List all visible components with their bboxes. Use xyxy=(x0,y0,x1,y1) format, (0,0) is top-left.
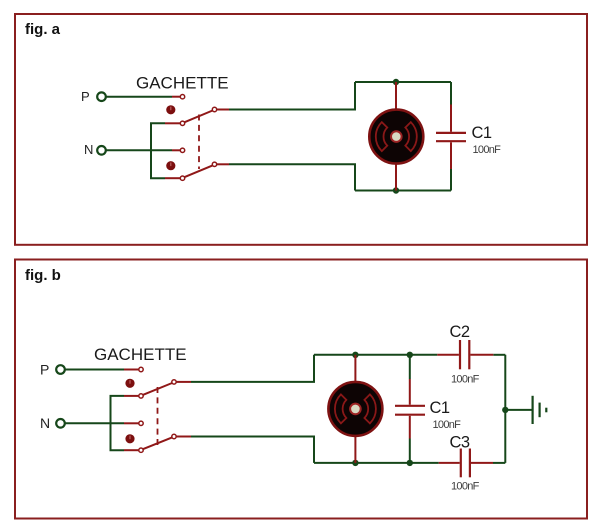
svg-text:GACHETTE: GACHETTE xyxy=(136,74,229,93)
switch top pole (fig. a) xyxy=(180,107,216,125)
svg-text:P: P xyxy=(40,361,49,377)
svg-text:100nF: 100nF xyxy=(451,480,480,492)
wire N to switch pin (fig. a) xyxy=(107,149,173,151)
terminal P (fig. b) xyxy=(56,365,65,374)
switch pin N common (fig. b) xyxy=(124,421,143,425)
wire bottom rail (fig. a) xyxy=(355,190,451,192)
frame fig. a xyxy=(15,14,587,245)
svg-text:N: N xyxy=(40,415,50,431)
junction bottom right (fig. b) xyxy=(407,460,413,466)
motor M1 (fig. b) xyxy=(328,355,382,463)
svg-text:C3: C3 xyxy=(450,434,470,452)
wire bracket joining poles (fig. a) xyxy=(151,123,165,178)
terminal P (fig. a) xyxy=(97,92,106,101)
switch left pins (fig. a) xyxy=(165,123,180,178)
dashed mechanical link (fig. b) xyxy=(157,387,159,445)
junction top right (fig. b) xyxy=(407,352,413,358)
wire bottom pole to motor loop (fig. b) xyxy=(177,437,315,463)
switch bottom pole (fig. a) xyxy=(180,162,216,180)
ground symbol (fig. b) xyxy=(533,396,547,424)
svg-text:fig. a: fig. a xyxy=(25,21,61,38)
svg-text:P: P xyxy=(81,89,90,104)
capacitor C3 (fig. b) xyxy=(439,449,493,478)
push-button indicator top (fig. b) xyxy=(125,379,134,388)
svg-text:100nF: 100nF xyxy=(433,419,462,431)
wire top rail (fig. b) xyxy=(314,354,505,356)
capacitor C2 (fig. b) xyxy=(437,340,493,369)
switch pin N common (fig. a) xyxy=(172,148,185,152)
motor M1 (fig. a) xyxy=(369,82,423,191)
switch pin P (fig. a) xyxy=(172,95,185,99)
svg-text:C1: C1 xyxy=(430,399,450,417)
junction bottom left (fig. b) xyxy=(352,460,358,466)
terminal N (fig. b) xyxy=(56,419,65,428)
svg-text:100nF: 100nF xyxy=(473,144,502,156)
junction top (fig. a) xyxy=(393,79,399,85)
push-button indicator top (fig. a) xyxy=(166,105,175,114)
push-button indicator bottom (fig. a) xyxy=(166,161,175,170)
switch top pole (fig. b) xyxy=(139,380,176,398)
capacitor C1 (fig. a) xyxy=(436,82,466,191)
wire P to switch pin (fig. b) xyxy=(66,369,125,371)
wire top rail (fig. a) xyxy=(355,81,451,83)
wire bottom rail (fig. b) xyxy=(314,462,505,464)
svg-text:N: N xyxy=(84,142,93,157)
svg-text:C1: C1 xyxy=(472,124,492,142)
svg-text:C2: C2 xyxy=(450,323,470,341)
capacitor C1 (fig. b) xyxy=(395,355,425,463)
svg-text:GACHETTE: GACHETTE xyxy=(94,345,187,364)
terminal N (fig. a) xyxy=(97,146,106,155)
wire to ground (fig. b) xyxy=(505,409,531,411)
junction bottom (fig. a) xyxy=(393,187,399,193)
junction top left (fig. b) xyxy=(352,352,358,358)
wire bottom pole to motor loop (fig. a) xyxy=(217,164,355,190)
switch pin P (fig. b) xyxy=(124,367,143,371)
wire P to switch pin (fig. a) xyxy=(107,96,173,98)
push-button indicator bottom (fig. b) xyxy=(125,434,134,443)
wire bracket joining poles (fig. b) xyxy=(111,396,125,450)
wire N to switch pin (fig. b) xyxy=(66,422,125,424)
svg-text:100nF: 100nF xyxy=(451,373,480,385)
wire top pole to motor loop (fig. a) xyxy=(217,82,355,110)
frame fig. b xyxy=(15,260,587,519)
svg-text:fig. b: fig. b xyxy=(25,267,61,284)
wire top pole to motor loop (fig. b) xyxy=(177,355,315,382)
dashed mechanical link (fig. a) xyxy=(198,115,200,170)
switch left pins (fig. b) xyxy=(124,396,139,450)
junction ground (fig. b) xyxy=(502,407,508,413)
switch bottom pole (fig. b) xyxy=(139,434,176,452)
wire right vertical (fig. b) xyxy=(504,355,506,463)
